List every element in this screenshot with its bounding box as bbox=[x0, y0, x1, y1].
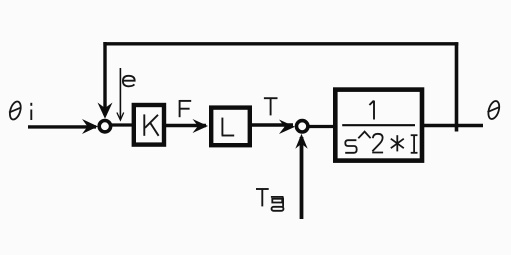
summing junction J2 bbox=[297, 121, 308, 132]
wire junction J2 to block G bbox=[308, 125, 335, 128]
wire block K to block L bbox=[165, 124, 206, 127]
label theta-i : i glyph bbox=[30, 103, 32, 120]
numerator digit 1 bbox=[369, 101, 374, 120]
wire junction J1 to block K bbox=[111, 123, 134, 126]
wire feedback top horizontal bbox=[103, 42, 458, 45]
wire block G output to theta bbox=[424, 124, 483, 127]
label F bbox=[180, 100, 192, 117]
arrowhead into block L bbox=[193, 119, 209, 133]
wire Tg vertical input bbox=[300, 137, 304, 219]
fraction bar bbox=[342, 124, 415, 126]
denominator letter s bbox=[345, 140, 357, 153]
arrowhead input into junction J1 bbox=[82, 119, 98, 134]
label theta output bbox=[486, 100, 501, 121]
block K box bbox=[134, 105, 164, 145]
e arrow thin vertical line bbox=[119, 68, 121, 120]
block G box 1/s^2*I bbox=[335, 90, 422, 161]
denominator letter I bbox=[411, 135, 418, 153]
wire block L to junction J2 bbox=[250, 123, 293, 126]
arrowhead feedback down into junction J1 bbox=[98, 103, 113, 119]
block K letter bbox=[144, 114, 158, 135]
arrowhead into junction J2 bbox=[279, 120, 295, 135]
wire feedback right vertical tap bbox=[455, 42, 459, 131]
denominator digit 2 bbox=[372, 134, 383, 153]
arrowhead Tg up into junction J2 bbox=[295, 134, 307, 149]
block L box bbox=[211, 108, 250, 146]
label T bbox=[264, 98, 278, 115]
label Tg : T glyph bbox=[256, 189, 269, 206]
label e bbox=[123, 76, 135, 87]
wire input from theta-i to junction J1 bbox=[28, 125, 96, 128]
denominator asterisk bbox=[391, 135, 404, 151]
block L letter bbox=[222, 118, 235, 136]
denominator caret bbox=[358, 132, 370, 139]
summing junction J1 bbox=[99, 121, 110, 132]
label theta-i : theta glyph bbox=[8, 100, 23, 121]
e arrowhead bbox=[117, 113, 124, 121]
wire feedback left vertical bbox=[103, 42, 106, 115]
label Tg : g glyph bbox=[271, 197, 284, 211]
